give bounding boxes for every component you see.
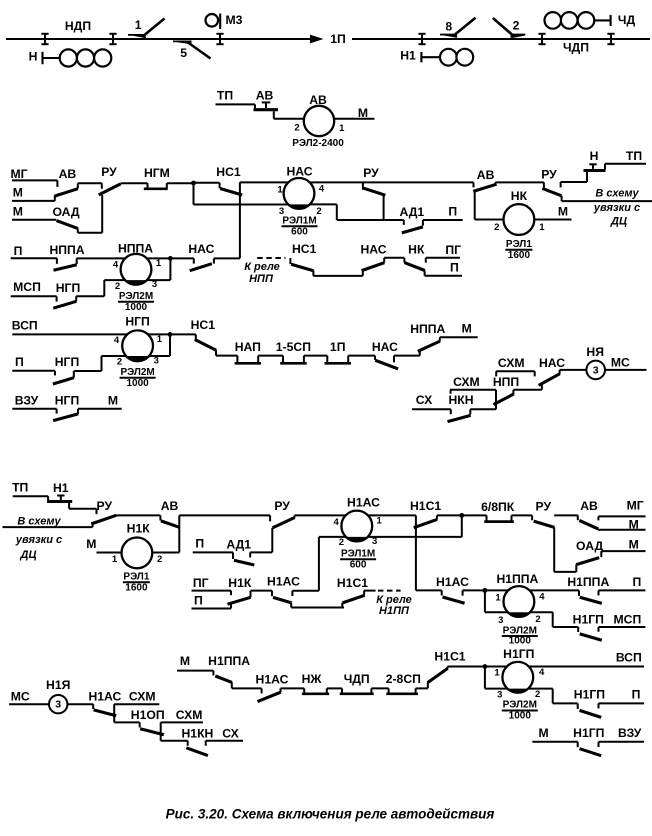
svg-text:1: 1 <box>277 184 283 195</box>
svg-text:ВЗУ: ВЗУ <box>618 726 642 740</box>
svg-text:НГП: НГП <box>55 394 79 408</box>
contact Н1АС (open) <box>256 673 289 702</box>
wire coil Н1ППА pin 4 to Н1ППА contact <box>530 589 579 591</box>
svg-text:М: М <box>539 726 549 740</box>
svg-text:2: 2 <box>157 554 162 565</box>
svg-text:1: 1 <box>495 592 501 603</box>
svg-text:Н1С1: Н1С1 <box>434 650 465 664</box>
contact НКН (open) <box>448 393 474 422</box>
contact НГП (open) <box>53 355 79 384</box>
svg-text:Н1ГП: Н1ГП <box>573 726 604 740</box>
svg-text:1: 1 <box>135 18 142 32</box>
wire МГ <box>12 180 57 187</box>
insulated joint <box>607 34 614 44</box>
wire step <box>541 385 543 390</box>
svg-text:ПГ: ПГ <box>445 243 461 257</box>
wire М to coil Н1К pin 1 <box>97 552 122 554</box>
svg-text:3: 3 <box>593 364 599 376</box>
svg-text:НАС: НАС <box>286 165 312 179</box>
relay coil НГП РЭЛ2М-1000 <box>114 315 163 390</box>
wire from ДЦ interface <box>3 526 93 528</box>
contact Н1ОП <box>131 708 165 735</box>
contact НАС (open) <box>188 242 214 271</box>
insulated joint <box>109 34 116 44</box>
svg-text:Н1АС: Н1АС <box>256 673 289 687</box>
relay coil НК РЭЛ1-1600 <box>494 189 545 261</box>
wire Н1К to Н1АС <box>251 590 273 592</box>
wire НАС to НППА <box>394 355 420 357</box>
svg-text:В схему: В схему <box>17 515 61 527</box>
svg-text:ДЦ: ДЦ <box>610 216 627 228</box>
svg-text:АВ: АВ <box>477 168 495 182</box>
wire НГМ to junction <box>167 182 194 184</box>
wire coil НГП pin 3 <box>149 355 170 357</box>
wire from ТП <box>216 103 256 105</box>
wire coil НППА pin 1 to junction <box>147 257 171 259</box>
svg-text:4: 4 <box>113 260 119 271</box>
wire <box>304 355 327 357</box>
svg-text:ТП: ТП <box>12 481 28 495</box>
wire junction to НС1 <box>170 333 196 335</box>
contact НС1 <box>290 242 316 276</box>
wire pin 3 up to junction <box>169 334 171 356</box>
relay coil Н1К РЭЛ1-1600 <box>112 522 162 594</box>
svg-text:РУ: РУ <box>274 499 290 513</box>
junction <box>483 588 488 593</box>
contact РУ <box>99 165 121 233</box>
wire to coil НАС pin 3 <box>194 204 289 206</box>
svg-text:600: 600 <box>291 226 308 237</box>
contact НГМ (back) <box>144 166 170 189</box>
svg-text:НАП: НАП <box>235 340 261 354</box>
shunt signal М3 <box>206 13 243 29</box>
svg-text:РЭЛ1М: РЭЛ1М <box>282 215 316 226</box>
contact Н1К (changeover) <box>228 576 252 604</box>
svg-text:3: 3 <box>498 615 503 626</box>
wire to Н1С1 <box>291 607 344 609</box>
svg-text:ВСП: ВСП <box>12 319 38 333</box>
svg-text:ДЦ: ДЦ <box>20 549 37 561</box>
svg-text:1: 1 <box>157 334 163 345</box>
svg-text:Н1ГП: Н1ГП <box>573 613 604 627</box>
wire to МСП <box>599 626 646 628</box>
svg-text:АВ: АВ <box>309 93 327 107</box>
svg-text:П: П <box>194 593 203 607</box>
svg-text:М: М <box>629 537 639 551</box>
svg-text:1-5СП: 1-5СП <box>276 340 311 354</box>
contact Н1С1 (changeover) <box>410 499 441 590</box>
contact НППА (open) <box>49 243 84 270</box>
contact НАП (back) <box>235 340 261 363</box>
wire to ВЗУ <box>599 741 645 743</box>
svg-text:АД1: АД1 <box>226 538 251 552</box>
svg-text:РЭЛ2М: РЭЛ2М <box>503 700 537 711</box>
relay coil НАС РЭЛ1М-600 <box>277 165 325 238</box>
signal Н (3 heads) <box>29 49 112 66</box>
contact НАС (open) <box>372 340 398 369</box>
wire СХ <box>412 409 451 414</box>
note В схему увязки с ДЦ <box>593 188 640 228</box>
wire to НЖ <box>281 687 305 689</box>
insulated joint <box>418 34 425 44</box>
contact НППА <box>410 322 445 356</box>
svg-text:В схему: В схему <box>595 188 639 200</box>
contact fixed point <box>560 182 562 187</box>
wire РУ to НГМ <box>121 182 148 184</box>
wire pin 2 down <box>336 204 338 220</box>
contact Н1ГП (open) <box>573 726 604 756</box>
wire to СХ <box>206 740 243 742</box>
wire from ТП <box>605 163 646 165</box>
wire step up <box>92 522 94 527</box>
wire pin 2 down <box>552 689 554 704</box>
wire to П <box>425 275 462 277</box>
svg-text:ОАД: ОАД <box>52 205 79 219</box>
relay coil Н1АС РЭЛ1М-600 <box>334 495 383 570</box>
wire ВЗУ <box>12 409 56 414</box>
svg-text:М: М <box>13 205 23 219</box>
insulated joint <box>41 34 48 44</box>
svg-text:ТП: ТП <box>626 149 642 163</box>
contact НПП <box>493 375 519 405</box>
svg-text:Н1К: Н1К <box>127 522 151 536</box>
contact РУ <box>532 499 554 572</box>
svg-text:4: 4 <box>319 183 325 194</box>
svg-text:М: М <box>358 106 368 120</box>
wire НАС to НК <box>384 257 404 259</box>
contact АД1 (open) <box>226 538 254 565</box>
svg-text:Н1: Н1 <box>400 49 416 63</box>
svg-text:1: 1 <box>376 516 382 527</box>
svg-text:Н1ППА: Н1ППА <box>567 575 609 589</box>
contact АВ (changeover МГ/М) <box>55 167 78 196</box>
svg-text:ЧДП: ЧДП <box>563 41 589 55</box>
wire М <box>177 671 213 676</box>
svg-text:1000: 1000 <box>509 711 532 722</box>
svg-text:1000: 1000 <box>126 378 149 389</box>
svg-text:МСП: МСП <box>614 613 642 627</box>
contact Н1ППА <box>208 654 250 688</box>
svg-text:НС1: НС1 <box>216 165 241 179</box>
contact НК (changeover) <box>404 243 425 276</box>
svg-text:1600: 1600 <box>125 582 148 593</box>
wire from Н1С1 vert <box>416 589 442 591</box>
wire coil Н1К pin 2 to АВ <box>152 552 179 554</box>
contact Н1АС (open) <box>436 575 469 604</box>
svg-text:НАС: НАС <box>188 242 214 256</box>
wire junction to 6/8ПК <box>462 514 487 516</box>
wire РУ to АВ <box>116 514 160 516</box>
wire АВ to РУ <box>495 181 544 183</box>
wire НКН to step <box>470 408 496 410</box>
svg-text:НГП: НГП <box>125 315 149 329</box>
contact РУ <box>363 166 385 220</box>
wire ОАД to РУ <box>78 232 102 234</box>
junction <box>459 513 464 518</box>
wire junction to coil Н1ППА pin 1 <box>485 589 508 591</box>
contact 6/8ПК (back) <box>481 500 515 522</box>
contact РУ <box>270 499 295 553</box>
svg-text:СХМ: СХМ <box>176 708 203 722</box>
svg-text:3: 3 <box>497 690 502 701</box>
wire РУ to coil Н1АС pin 4 <box>295 514 346 516</box>
wire coil Н1ГП pin 2 right <box>528 688 552 690</box>
contact ОАД <box>52 205 79 233</box>
relay coil НППА РЭЛ2М-1000 <box>113 242 162 314</box>
svg-text:НДП: НДП <box>65 19 91 33</box>
relay coil Н1ГП РЭЛ2М-1000 <box>494 647 545 721</box>
wire coil АВ pin 1 to М <box>334 118 375 120</box>
svg-text:Н: Н <box>29 50 38 64</box>
svg-text:М: М <box>462 321 472 335</box>
junction <box>168 256 173 261</box>
svg-text:ВСП: ВСП <box>616 650 642 664</box>
wire to Н1ГП contact <box>553 626 579 628</box>
svg-text:НГП: НГП <box>55 355 79 369</box>
contact АВ (changeover) <box>473 168 496 220</box>
wire Н1С1 out <box>364 590 376 592</box>
wire coil НАС pin 2 <box>310 203 337 205</box>
svg-text:2: 2 <box>513 19 520 33</box>
wire coil Н1АС pin 3 right <box>368 536 462 538</box>
svg-text:Н1ГП: Н1ГП <box>503 647 534 661</box>
svg-text:ОАД: ОАД <box>576 539 603 553</box>
wire НЯ to МС <box>605 369 647 371</box>
svg-text:3: 3 <box>55 699 61 711</box>
wire junction down <box>484 667 486 689</box>
arrow 1П direction <box>310 35 324 44</box>
svg-text:увязки с: увязки с <box>15 534 62 546</box>
contact Н1КН (open) <box>181 727 213 756</box>
turnout 1 <box>128 18 165 38</box>
wire coil Н1ППА pin 2 right <box>530 611 553 613</box>
svg-text:АВ: АВ <box>161 499 179 513</box>
svg-text:Н1С1: Н1С1 <box>337 576 368 590</box>
svg-text:6/8ПК: 6/8ПК <box>481 500 515 514</box>
wire to РУ <box>512 514 533 516</box>
contact fixed point <box>96 509 98 515</box>
svg-text:П: П <box>632 687 641 701</box>
svg-text:1600: 1600 <box>508 250 531 261</box>
contact АВ (changeover МГ/М) <box>578 499 599 529</box>
wire junction to НАС <box>170 257 193 259</box>
wire to coil НППА pin 2 <box>104 279 125 281</box>
svg-text:2: 2 <box>339 537 344 548</box>
wire ОАД to М <box>601 550 645 552</box>
wire to coil НППА pin 4 <box>77 257 126 259</box>
svg-text:1: 1 <box>494 668 500 679</box>
svg-text:2: 2 <box>535 614 540 625</box>
contact 2-8СП (back) <box>386 672 421 694</box>
wire to coil НК pin 2 <box>475 219 504 221</box>
wire to ДЦ interface <box>562 200 652 202</box>
svg-text:РУ: РУ <box>101 165 117 179</box>
contact НС1 <box>191 318 217 356</box>
svg-text:К реле: К реле <box>244 261 280 273</box>
svg-text:МСП: МСП <box>13 280 41 294</box>
relay НЯ (3) <box>586 345 605 379</box>
svg-text:ПГ: ПГ <box>193 576 209 590</box>
svg-text:П: П <box>14 244 23 258</box>
wire П <box>12 371 55 376</box>
wire <box>371 687 388 689</box>
note В схему увязки с ДЦ <box>15 515 62 561</box>
contact 1-5СП (back) <box>276 340 311 363</box>
wire to coil АВ pin 2 <box>274 118 304 120</box>
wire Н1С1 to junction <box>448 666 485 668</box>
wire pin 2 stub <box>292 591 319 596</box>
wire button to РУ <box>561 181 587 183</box>
svg-text:Рис. 3.20. Схема включения рел: Рис. 3.20. Схема включения реле автодейс… <box>166 807 495 822</box>
wire П <box>192 604 232 608</box>
wire junction to НС1 <box>194 182 220 184</box>
wire МСП <box>11 296 57 301</box>
wire М <box>12 195 55 201</box>
svg-text:РУ: РУ <box>363 166 379 180</box>
wire АД1 to П <box>423 219 463 221</box>
wire dashed к реле НПП <box>257 257 285 259</box>
wire НППА to М <box>440 336 478 338</box>
wire СХМ stub <box>161 721 203 723</box>
wire pin 2 down <box>318 537 320 591</box>
svg-text:М3: М3 <box>226 13 243 27</box>
insulated joint <box>216 34 223 44</box>
wire СХМ stub <box>450 390 496 394</box>
svg-text:Н1ППА: Н1ППА <box>496 572 538 586</box>
wire <box>348 355 375 357</box>
svg-text:Н1К: Н1К <box>228 576 252 590</box>
wire level 3 <box>161 740 188 742</box>
wire junction down <box>484 590 486 612</box>
svg-text:НППА: НППА <box>118 242 153 256</box>
wire СХМ stub <box>114 703 159 705</box>
svg-text:НАС: НАС <box>372 340 398 354</box>
wire АД1 to РУ <box>250 551 272 553</box>
wire РУ to АВ <box>363 181 474 183</box>
wire junction down <box>461 515 463 537</box>
wire pin 2 down <box>552 612 554 627</box>
contact ЧДП (back) <box>340 672 374 694</box>
wire НГП step <box>76 295 104 297</box>
svg-text:1: 1 <box>339 123 345 134</box>
svg-text:600: 600 <box>350 560 367 571</box>
svg-text:1: 1 <box>112 554 118 565</box>
svg-text:АВ: АВ <box>256 88 274 102</box>
svg-text:Н1ОП: Н1ОП <box>131 708 165 722</box>
wire Н1Я out <box>67 703 93 705</box>
wire НС1 to coil НАС pin 1 <box>240 181 288 183</box>
svg-text:Н1С1: Н1С1 <box>410 499 441 513</box>
wire coil Н1АС pin 1 to Н1С1 <box>368 514 416 516</box>
wire НС1 to НАП <box>216 355 237 357</box>
wire to ПГ <box>426 257 460 259</box>
svg-text:1000: 1000 <box>125 302 148 313</box>
wire junction to coil Н1ГП pin 1 <box>485 666 507 668</box>
wire НПП to НАС <box>513 389 542 391</box>
svg-text:МС: МС <box>611 355 630 369</box>
svg-text:НК: НК <box>408 243 425 257</box>
svg-text:Н1: Н1 <box>53 481 69 495</box>
svg-text:АВ: АВ <box>59 167 77 181</box>
svg-text:МГ: МГ <box>627 499 644 513</box>
wire ВСП to coil НГП pin 4 <box>12 333 127 335</box>
svg-text:8: 8 <box>445 20 452 34</box>
wire М <box>532 742 577 747</box>
svg-text:НЯ: НЯ <box>586 345 604 359</box>
contact НГП (open) <box>53 281 80 308</box>
wire to АД1 <box>337 219 404 221</box>
contact НГП (open) <box>53 394 79 421</box>
turnout 5 <box>173 41 211 61</box>
wire НГП to М <box>78 408 122 410</box>
wire НГП step <box>74 370 102 372</box>
wire level 2 <box>114 721 140 723</box>
contact НАС <box>539 356 566 386</box>
wire step up <box>101 356 103 371</box>
svg-text:Н1ППА: Н1ППА <box>208 654 250 668</box>
turnout 8 <box>440 18 476 38</box>
wire НАС to НЯ <box>560 369 587 371</box>
svg-text:НГП: НГП <box>56 281 80 295</box>
svg-text:2: 2 <box>535 689 540 700</box>
wire button to РУ <box>69 508 96 510</box>
wire РУ down-jog <box>554 571 576 573</box>
svg-text:РЭЛ1М: РЭЛ1М <box>341 549 375 560</box>
contact Н1С1 <box>337 576 368 607</box>
contact Н1ГП (open) <box>573 613 604 641</box>
svg-text:РЭЛ2М: РЭЛ2М <box>119 291 153 302</box>
svg-text:НК: НК <box>511 189 528 203</box>
contact РУ <box>541 168 561 202</box>
svg-text:РЭЛ1: РЭЛ1 <box>506 239 532 250</box>
wire П <box>11 258 57 264</box>
pushbutton Н <box>584 164 606 182</box>
svg-text:М: М <box>13 186 23 200</box>
contact Н1С1 <box>428 650 466 689</box>
contact 1П (back) <box>325 340 352 363</box>
svg-text:ВЗУ: ВЗУ <box>15 394 39 408</box>
wire МС to Н1Я <box>9 703 49 705</box>
junction <box>191 181 196 186</box>
wire to П <box>599 702 645 704</box>
svg-text:1000: 1000 <box>509 636 532 647</box>
svg-text:М: М <box>108 394 118 408</box>
wire to coil Н1ГП pin 3 <box>485 688 507 690</box>
svg-text:4: 4 <box>539 592 545 603</box>
svg-text:СХ: СХ <box>416 393 433 407</box>
svg-text:Н1Я: Н1Я <box>46 678 70 692</box>
svg-text:Н1КН: Н1КН <box>181 727 213 741</box>
svg-text:НППА: НППА <box>410 322 445 336</box>
wire to coil Н1ППА pin 3 <box>485 611 508 613</box>
signal ЧД (3 heads) <box>545 12 636 29</box>
wire Н1АС to junction <box>463 589 485 591</box>
contact НАС (changeover up) <box>360 243 386 276</box>
wire НАС up to НС1 <box>214 257 240 259</box>
wire <box>416 687 428 689</box>
contact Н1АС <box>267 575 300 608</box>
svg-text:2-8СП: 2-8СП <box>386 672 421 686</box>
wire РУ to АВ <box>554 514 578 516</box>
svg-text:Н1АС: Н1АС <box>267 575 300 589</box>
svg-text:Н1ПП: Н1ПП <box>379 605 410 617</box>
svg-text:1П: 1П <box>330 340 346 354</box>
svg-text:СХ: СХ <box>222 727 239 741</box>
wire to Н1АС <box>232 687 262 689</box>
note К реле Н1ПП <box>376 594 412 617</box>
svg-text:4: 4 <box>334 517 340 528</box>
svg-text:РУ: РУ <box>536 499 552 513</box>
